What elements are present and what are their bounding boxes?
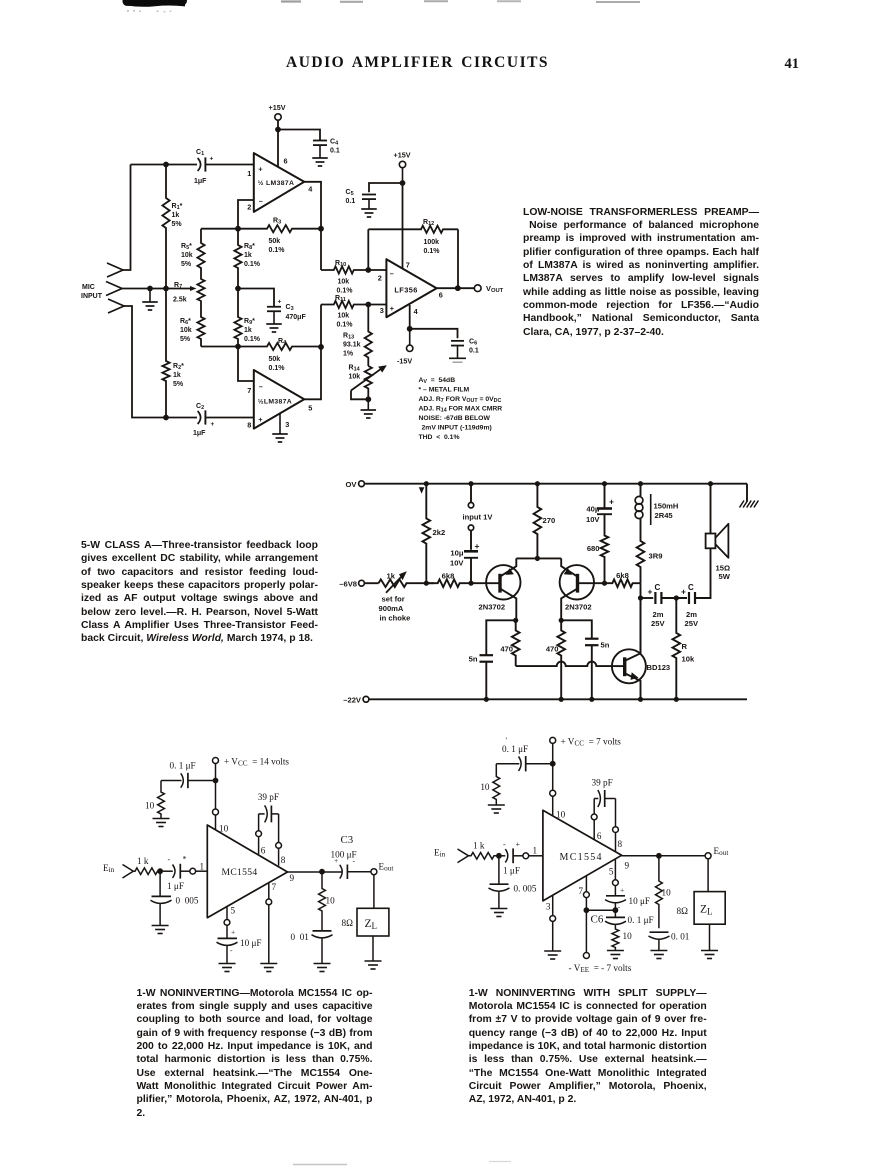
- caption low-noise preamp: [523, 206, 759, 339]
- wire: [661, 597, 687, 599]
- svg-text:0.1: 0.1: [330, 148, 340, 155]
- junction: [559, 618, 564, 623]
- svg-text:0.1%: 0.1%: [424, 248, 441, 255]
- junction: [468, 481, 473, 486]
- svg-text:100k: 100k: [424, 239, 440, 246]
- mic input connector: [81, 263, 124, 313]
- junction: [235, 226, 241, 232]
- capacitor 5n left: [469, 620, 516, 699]
- caption 1-W noninverting split supply: [469, 987, 707, 1107]
- svg-text:2R45: 2R45: [655, 511, 674, 520]
- svg-text:Ein: Ein: [434, 848, 446, 859]
- junction: [638, 697, 643, 702]
- svg-text:–: –: [259, 382, 263, 391]
- resistor 2k2: [423, 484, 446, 584]
- rail -22V: [343, 696, 747, 705]
- svg-text:8Ω: 8Ω: [677, 906, 689, 916]
- load ZL 8 ohm: [677, 859, 726, 951]
- wire bottom input: [124, 306, 197, 418]
- svg-text:+: +: [516, 840, 521, 849]
- potentiometer R14 10k: [349, 365, 387, 400]
- svg-text:–6V8: –6V8: [339, 580, 357, 589]
- input Ein: [103, 863, 133, 878]
- caption 5-W class A: [81, 539, 318, 646]
- svg-text:10: 10: [145, 801, 155, 811]
- svg-text:MIC: MIC: [82, 284, 95, 291]
- svg-text:0. 005: 0. 005: [514, 884, 537, 894]
- op-amp U3 LF356: [386, 259, 436, 317]
- junction: [484, 697, 489, 702]
- svg-text:10k: 10k: [181, 252, 193, 259]
- svg-text:0.1%: 0.1%: [244, 261, 261, 268]
- svg-text:10: 10: [326, 896, 336, 906]
- inductor choke 150mH 2R45: [635, 484, 678, 525]
- svg-text:900mA: 900mA: [379, 604, 404, 613]
- junction: [559, 697, 564, 702]
- pin 5 wire: [224, 907, 230, 939]
- svg-text:R14: R14: [349, 365, 361, 373]
- svg-text:3: 3: [285, 420, 289, 429]
- current arrow marker: [419, 487, 425, 493]
- svg-text:R: R: [682, 642, 688, 651]
- capacitor 0.01: [291, 931, 333, 964]
- svg-text:680: 680: [587, 544, 600, 553]
- capacitor 39 pF feedback: [591, 778, 618, 852]
- caption 1-W noninverting: [137, 987, 373, 1120]
- capacitor 0.1uF supply: [161, 761, 216, 789]
- ground: [153, 819, 170, 827]
- svg-text:6k8: 6k8: [616, 571, 629, 580]
- capacitor C 2m 25V second: [681, 583, 699, 628]
- svg-text:0.1: 0.1: [346, 198, 356, 205]
- svg-text:1: 1: [200, 862, 205, 872]
- svg-text:5n: 5n: [601, 641, 610, 650]
- potentiometer 1k set for 900mA in choke: [379, 571, 427, 622]
- junction: [163, 286, 169, 292]
- svg-text:-: -: [168, 855, 171, 864]
- transistor Q2 2N3702: [560, 558, 605, 620]
- svg-text:50k: 50k: [269, 238, 281, 245]
- svg-text:10V: 10V: [450, 559, 464, 568]
- capacitor C1 1uF: [194, 149, 214, 185]
- resistor R4 50k: [238, 338, 321, 372]
- page number 41: [785, 56, 800, 73]
- svg-text:BD123: BD123: [647, 663, 671, 672]
- svg-text:ADJ. R14 FOR MAX CMRR: ADJ. R14 FOR MAX CMRR: [419, 406, 503, 414]
- scan artifact top dashes: [281, 0, 640, 3]
- wire: [278, 130, 320, 141]
- resistor R13 93.1k: [343, 305, 372, 367]
- svg-text:50k: 50k: [269, 356, 281, 363]
- svg-text:7: 7: [272, 882, 277, 892]
- input terminal input 1V: [463, 484, 494, 550]
- svg-text:NOISE: -67dB BELOW: NOISE: -67dB BELOW: [419, 415, 491, 422]
- svg-text:2.5k: 2.5k: [173, 297, 187, 304]
- note annotations: [419, 377, 503, 441]
- svg-text:½LM387A: ½LM387A: [258, 398, 292, 406]
- svg-text:R3: R3: [273, 218, 281, 226]
- junction: [365, 396, 371, 402]
- terminal -6V8: [339, 580, 378, 589]
- resistor 6k8 base: [605, 571, 641, 587]
- svg-text:8: 8: [247, 421, 251, 430]
- svg-text:+: +: [620, 886, 624, 895]
- svg-text:½ LM387A: ½ LM387A: [258, 179, 294, 187]
- capacitor C4 0.1: [313, 139, 340, 159]
- svg-text:10k: 10k: [682, 655, 695, 664]
- svg-text:–: –: [390, 269, 394, 278]
- junction: [318, 226, 324, 232]
- junction: [584, 907, 590, 913]
- svg-text:10k: 10k: [338, 313, 350, 320]
- svg-text:C6: C6: [591, 914, 604, 926]
- junction: [235, 344, 241, 350]
- wire output: [622, 855, 706, 857]
- capacitor 0.005: [151, 871, 199, 925]
- capacitor 0.1uF C6: [605, 910, 654, 925]
- pin 5 wire: [613, 859, 619, 895]
- svg-text:6: 6: [597, 831, 602, 841]
- junction: [275, 127, 281, 133]
- svg-text:4: 4: [414, 307, 419, 316]
- wire pin7: [238, 347, 254, 382]
- power terminal +VCC = 7 volts: [550, 737, 622, 764]
- ground pin3: [272, 414, 288, 442]
- junction: [535, 481, 540, 486]
- svg-text:10k: 10k: [180, 327, 192, 334]
- transistor Q3 BD123: [612, 598, 670, 699]
- junction: [513, 618, 518, 623]
- svg-text:3R9: 3R9: [649, 552, 663, 561]
- wire U1 output: [304, 182, 321, 270]
- capacitor 10uF pin5: [217, 928, 262, 964]
- wire to speaker: [695, 548, 711, 598]
- svg-text:R6*: R6*: [180, 318, 191, 326]
- svg-text:R12: R12: [423, 219, 434, 227]
- running head AUDIO AMPLIFIER CIRCUITS: [286, 54, 549, 72]
- svg-text:2N3702: 2N3702: [479, 603, 506, 612]
- svg-text:1 k: 1 k: [473, 841, 485, 851]
- svg-text:1k: 1k: [244, 327, 252, 334]
- power terminal +VCC = 14 volts: [213, 757, 290, 781]
- capacitor 10uF pin5: [605, 886, 650, 912]
- svg-text:5%: 5%: [172, 221, 183, 228]
- svg-text:25V: 25V: [651, 619, 665, 628]
- ground: [365, 961, 382, 969]
- junction: [638, 481, 643, 486]
- svg-text:C1: C1: [196, 149, 204, 157]
- svg-text:5: 5: [609, 867, 614, 877]
- capacitor 0.1uF supply: [496, 736, 552, 771]
- svg-text:Eout: Eout: [379, 862, 394, 873]
- op-amp U1 1/2 LM387A: [254, 153, 304, 212]
- svg-text:0.1: 0.1: [469, 348, 479, 355]
- ground: [219, 964, 236, 972]
- svg-text:C2: C2: [196, 403, 204, 411]
- svg-text:0.1%: 0.1%: [337, 288, 354, 295]
- ground: [607, 951, 624, 959]
- ground: [361, 209, 377, 217]
- capacitor C3 470uF: [238, 289, 306, 325]
- wire BD123 base with hops: [516, 662, 612, 667]
- capacitor 0.005: [489, 856, 537, 909]
- svg-text:+: +: [231, 928, 235, 937]
- pin 7 wire: [266, 883, 272, 964]
- svg-text:MC1554: MC1554: [222, 867, 258, 878]
- svg-text:+: +: [258, 415, 262, 424]
- svg-text:7: 7: [406, 261, 410, 270]
- svg-text:8Ω: 8Ω: [342, 918, 354, 928]
- svg-text:C6: C6: [469, 339, 477, 347]
- svg-text:R13: R13: [343, 333, 354, 341]
- svg-text:0.1%: 0.1%: [244, 336, 261, 343]
- output terminal Eout: [371, 862, 393, 875]
- speaker 15ohm 5W: [706, 484, 731, 581]
- resistor 270 tail: [534, 484, 556, 559]
- capacitor 40u 10V: [586, 484, 614, 524]
- ground: [650, 951, 667, 959]
- svg-text:- VEE = - 7 volts: - VEE = - 7 volts: [569, 963, 632, 974]
- ground: [314, 964, 331, 972]
- svg-text:+15V: +15V: [269, 103, 286, 112]
- resistor 470 second: [546, 620, 565, 699]
- svg-text:0.1%: 0.1%: [269, 365, 286, 372]
- output terminal Eout: [705, 846, 728, 859]
- op-amp U2 1/2 LM387A: [254, 370, 304, 429]
- resistor R2 1k: [162, 289, 184, 418]
- resistor 10 output: [319, 872, 335, 931]
- svg-text:+: +: [334, 856, 338, 865]
- svg-text:+: +: [258, 165, 262, 174]
- resistor R5 10k: [181, 229, 205, 272]
- wire U2 output: [304, 347, 321, 399]
- resistor 10 supply: [145, 781, 164, 819]
- svg-text:-: -: [230, 946, 233, 955]
- svg-text:R11: R11: [335, 295, 346, 303]
- svg-text:+: +: [390, 304, 394, 313]
- junction: [589, 697, 594, 702]
- svg-text:Ein: Ein: [103, 863, 115, 874]
- power terminal +15V (LF356 supply): [394, 151, 411, 184]
- wire: [205, 164, 254, 166]
- junction: [365, 267, 371, 273]
- svg-text:7: 7: [247, 386, 251, 395]
- wire emitter tie: [516, 557, 561, 559]
- svg-text:470μF: 470μF: [286, 314, 307, 321]
- op-amp U1 MC1554: [207, 825, 287, 918]
- svg-text:2mV INPUT (-119d9m): 2mV INPUT (-119d9m): [422, 425, 492, 432]
- svg-text:C3: C3: [341, 834, 354, 846]
- svg-text:–22V: –22V: [343, 696, 362, 705]
- wire output: [437, 287, 475, 289]
- svg-text:1k: 1k: [173, 372, 181, 379]
- capacitor 1uF coupling: [499, 840, 543, 876]
- resistor R3 50k: [201, 218, 321, 255]
- junction: [213, 778, 219, 784]
- transistor Q1 2N3702: [471, 558, 521, 620]
- svg-text:R4: R4: [278, 338, 287, 346]
- svg-text:0. 1 μF: 0. 1 μF: [170, 761, 196, 771]
- resistor 3R9: [637, 525, 663, 583]
- junction: [455, 285, 461, 291]
- capacitor C2 1uF: [193, 403, 215, 437]
- svg-text:C: C: [688, 583, 694, 592]
- junction: [424, 581, 429, 586]
- wire top input: [123, 165, 131, 271]
- svg-text:150mH: 150mH: [654, 502, 679, 511]
- wire: [205, 417, 254, 419]
- wire output: [288, 871, 342, 873]
- svg-text:1 k: 1 k: [137, 856, 149, 866]
- wire pin6 supply: [277, 130, 279, 167]
- svg-text:10k: 10k: [349, 374, 361, 381]
- wire -6V8 line: [426, 582, 434, 584]
- svg-text:R2*: R2*: [173, 363, 184, 371]
- svg-text:470: 470: [546, 645, 559, 654]
- svg-text:C5: C5: [346, 189, 354, 197]
- svg-text:10: 10: [480, 782, 490, 792]
- svg-text:VOUT: VOUT: [486, 284, 504, 294]
- power terminal -15V: [397, 329, 413, 366]
- wire pin 7 supply: [402, 183, 404, 269]
- resistor 10 supply: [480, 764, 499, 805]
- junction: [602, 581, 607, 586]
- svg-text:C: C: [655, 583, 661, 592]
- wire output node: [640, 583, 642, 653]
- svg-text:10k: 10k: [338, 279, 350, 286]
- resistor R10 10k: [321, 260, 386, 295]
- svg-text:* – METAL FILM: * – METAL FILM: [419, 387, 470, 394]
- capacitor 10u 10V: [450, 541, 480, 583]
- svg-text:+ VCC = 14 volts: + VCC = 14 volts: [224, 757, 289, 768]
- svg-text:0. 01: 0. 01: [671, 932, 690, 942]
- resistor 470 first: [500, 620, 519, 666]
- svg-text:Eout: Eout: [714, 846, 729, 857]
- wire C6 node: [586, 909, 615, 911]
- svg-text:0.1%: 0.1%: [337, 322, 354, 329]
- junction: [708, 481, 713, 486]
- svg-text:39 pF: 39 pF: [258, 792, 279, 802]
- svg-text:+: +: [210, 156, 214, 163]
- svg-text:10 μF: 10 μF: [240, 938, 262, 948]
- svg-text:R1*: R1*: [172, 203, 183, 211]
- svg-text:25V: 25V: [685, 619, 699, 628]
- capacitor C3 100uF output: [331, 834, 371, 879]
- svg-text:9: 9: [290, 873, 295, 883]
- svg-text:1 μF: 1 μF: [503, 866, 520, 876]
- resistor R1 1k: [162, 165, 182, 289]
- svg-text:6: 6: [261, 846, 266, 856]
- svg-text:R7: R7: [174, 282, 182, 290]
- svg-text:+: +: [278, 299, 282, 306]
- junction: [424, 481, 429, 486]
- svg-text:5%: 5%: [180, 336, 191, 343]
- power terminal -VEE = -7 volts: [569, 953, 632, 975]
- junction: [550, 761, 556, 767]
- svg-text:–: –: [259, 197, 263, 206]
- capacitor 0.01: [649, 932, 690, 951]
- svg-text:8: 8: [281, 855, 286, 865]
- resistor R12 100k: [368, 219, 458, 288]
- resistor R8 1k: [234, 229, 260, 289]
- resistor 1 k input: [469, 841, 499, 860]
- ground: [701, 951, 718, 959]
- svg-text:1: 1: [247, 169, 251, 178]
- resistor 1 k input: [133, 856, 160, 875]
- svg-text:AV = 54dB: AV = 54dB: [419, 377, 456, 385]
- ground: [266, 324, 282, 332]
- svg-text:1μF: 1μF: [194, 178, 207, 185]
- svg-text:1k: 1k: [172, 212, 180, 219]
- junction: [318, 344, 324, 350]
- junction: [319, 869, 325, 875]
- resistor R 10k bootstrap: [673, 598, 695, 699]
- svg-text:C4: C4: [330, 139, 339, 147]
- svg-text:3: 3: [380, 306, 384, 315]
- svg-text:OV: OV: [346, 480, 358, 489]
- capacitor C 2m 25V first: [641, 583, 666, 628]
- input Ein: [434, 848, 469, 863]
- ground: [260, 964, 277, 972]
- svg-text:MC1554: MC1554: [560, 852, 603, 863]
- svg-text:6k8: 6k8: [442, 572, 455, 581]
- chassis ground top right: [740, 484, 759, 508]
- wire pin2: [238, 200, 254, 229]
- ground mic common: [142, 289, 158, 311]
- junction: [535, 556, 540, 561]
- svg-text:9: 9: [625, 861, 630, 871]
- svg-text:+: +: [648, 587, 653, 597]
- svg-text:10 μF: 10 μF: [629, 896, 651, 906]
- svg-text:5W: 5W: [719, 572, 731, 581]
- svg-text:+: +: [475, 541, 480, 551]
- ground: [488, 805, 505, 813]
- svg-text:0.1%: 0.1%: [269, 247, 286, 254]
- resistor 680: [587, 514, 608, 583]
- svg-text:ZL: ZL: [365, 918, 378, 931]
- svg-text:1k: 1k: [387, 572, 396, 581]
- capacitor 5n right: [561, 620, 610, 699]
- svg-text:39 pF: 39 pF: [592, 778, 613, 788]
- svg-text:10: 10: [623, 931, 633, 941]
- capacitor C6 0.1: [410, 329, 479, 359]
- ground: [312, 158, 328, 166]
- wire pin4: [409, 305, 411, 329]
- svg-text:LF356: LF356: [394, 285, 417, 294]
- svg-text:+: +: [211, 421, 215, 428]
- ground: [449, 358, 466, 362]
- wire pin 10: [213, 781, 219, 830]
- svg-text:5%: 5%: [173, 381, 184, 388]
- svg-text:set for: set for: [382, 595, 405, 604]
- svg-text:10μ: 10μ: [450, 549, 463, 558]
- svg-text:5n: 5n: [469, 655, 478, 664]
- power terminal +15V (LM387A supply): [269, 103, 286, 130]
- svg-text:0. 1 μF: 0. 1 μF: [628, 915, 654, 925]
- svg-text:+: +: [681, 587, 686, 597]
- svg-text:8: 8: [618, 839, 623, 849]
- svg-text:ZL: ZL: [700, 904, 713, 917]
- pin 3 wire: [550, 895, 556, 951]
- resistor 6k8 input: [426, 572, 471, 588]
- svg-text:1 μF: 1 μF: [167, 881, 184, 891]
- junction: [157, 868, 163, 874]
- svg-text:R10: R10: [335, 260, 346, 268]
- svg-text:2m: 2m: [686, 610, 697, 619]
- svg-text:10V: 10V: [586, 515, 600, 524]
- resistor 10 output: [656, 856, 672, 928]
- junction: [163, 415, 169, 421]
